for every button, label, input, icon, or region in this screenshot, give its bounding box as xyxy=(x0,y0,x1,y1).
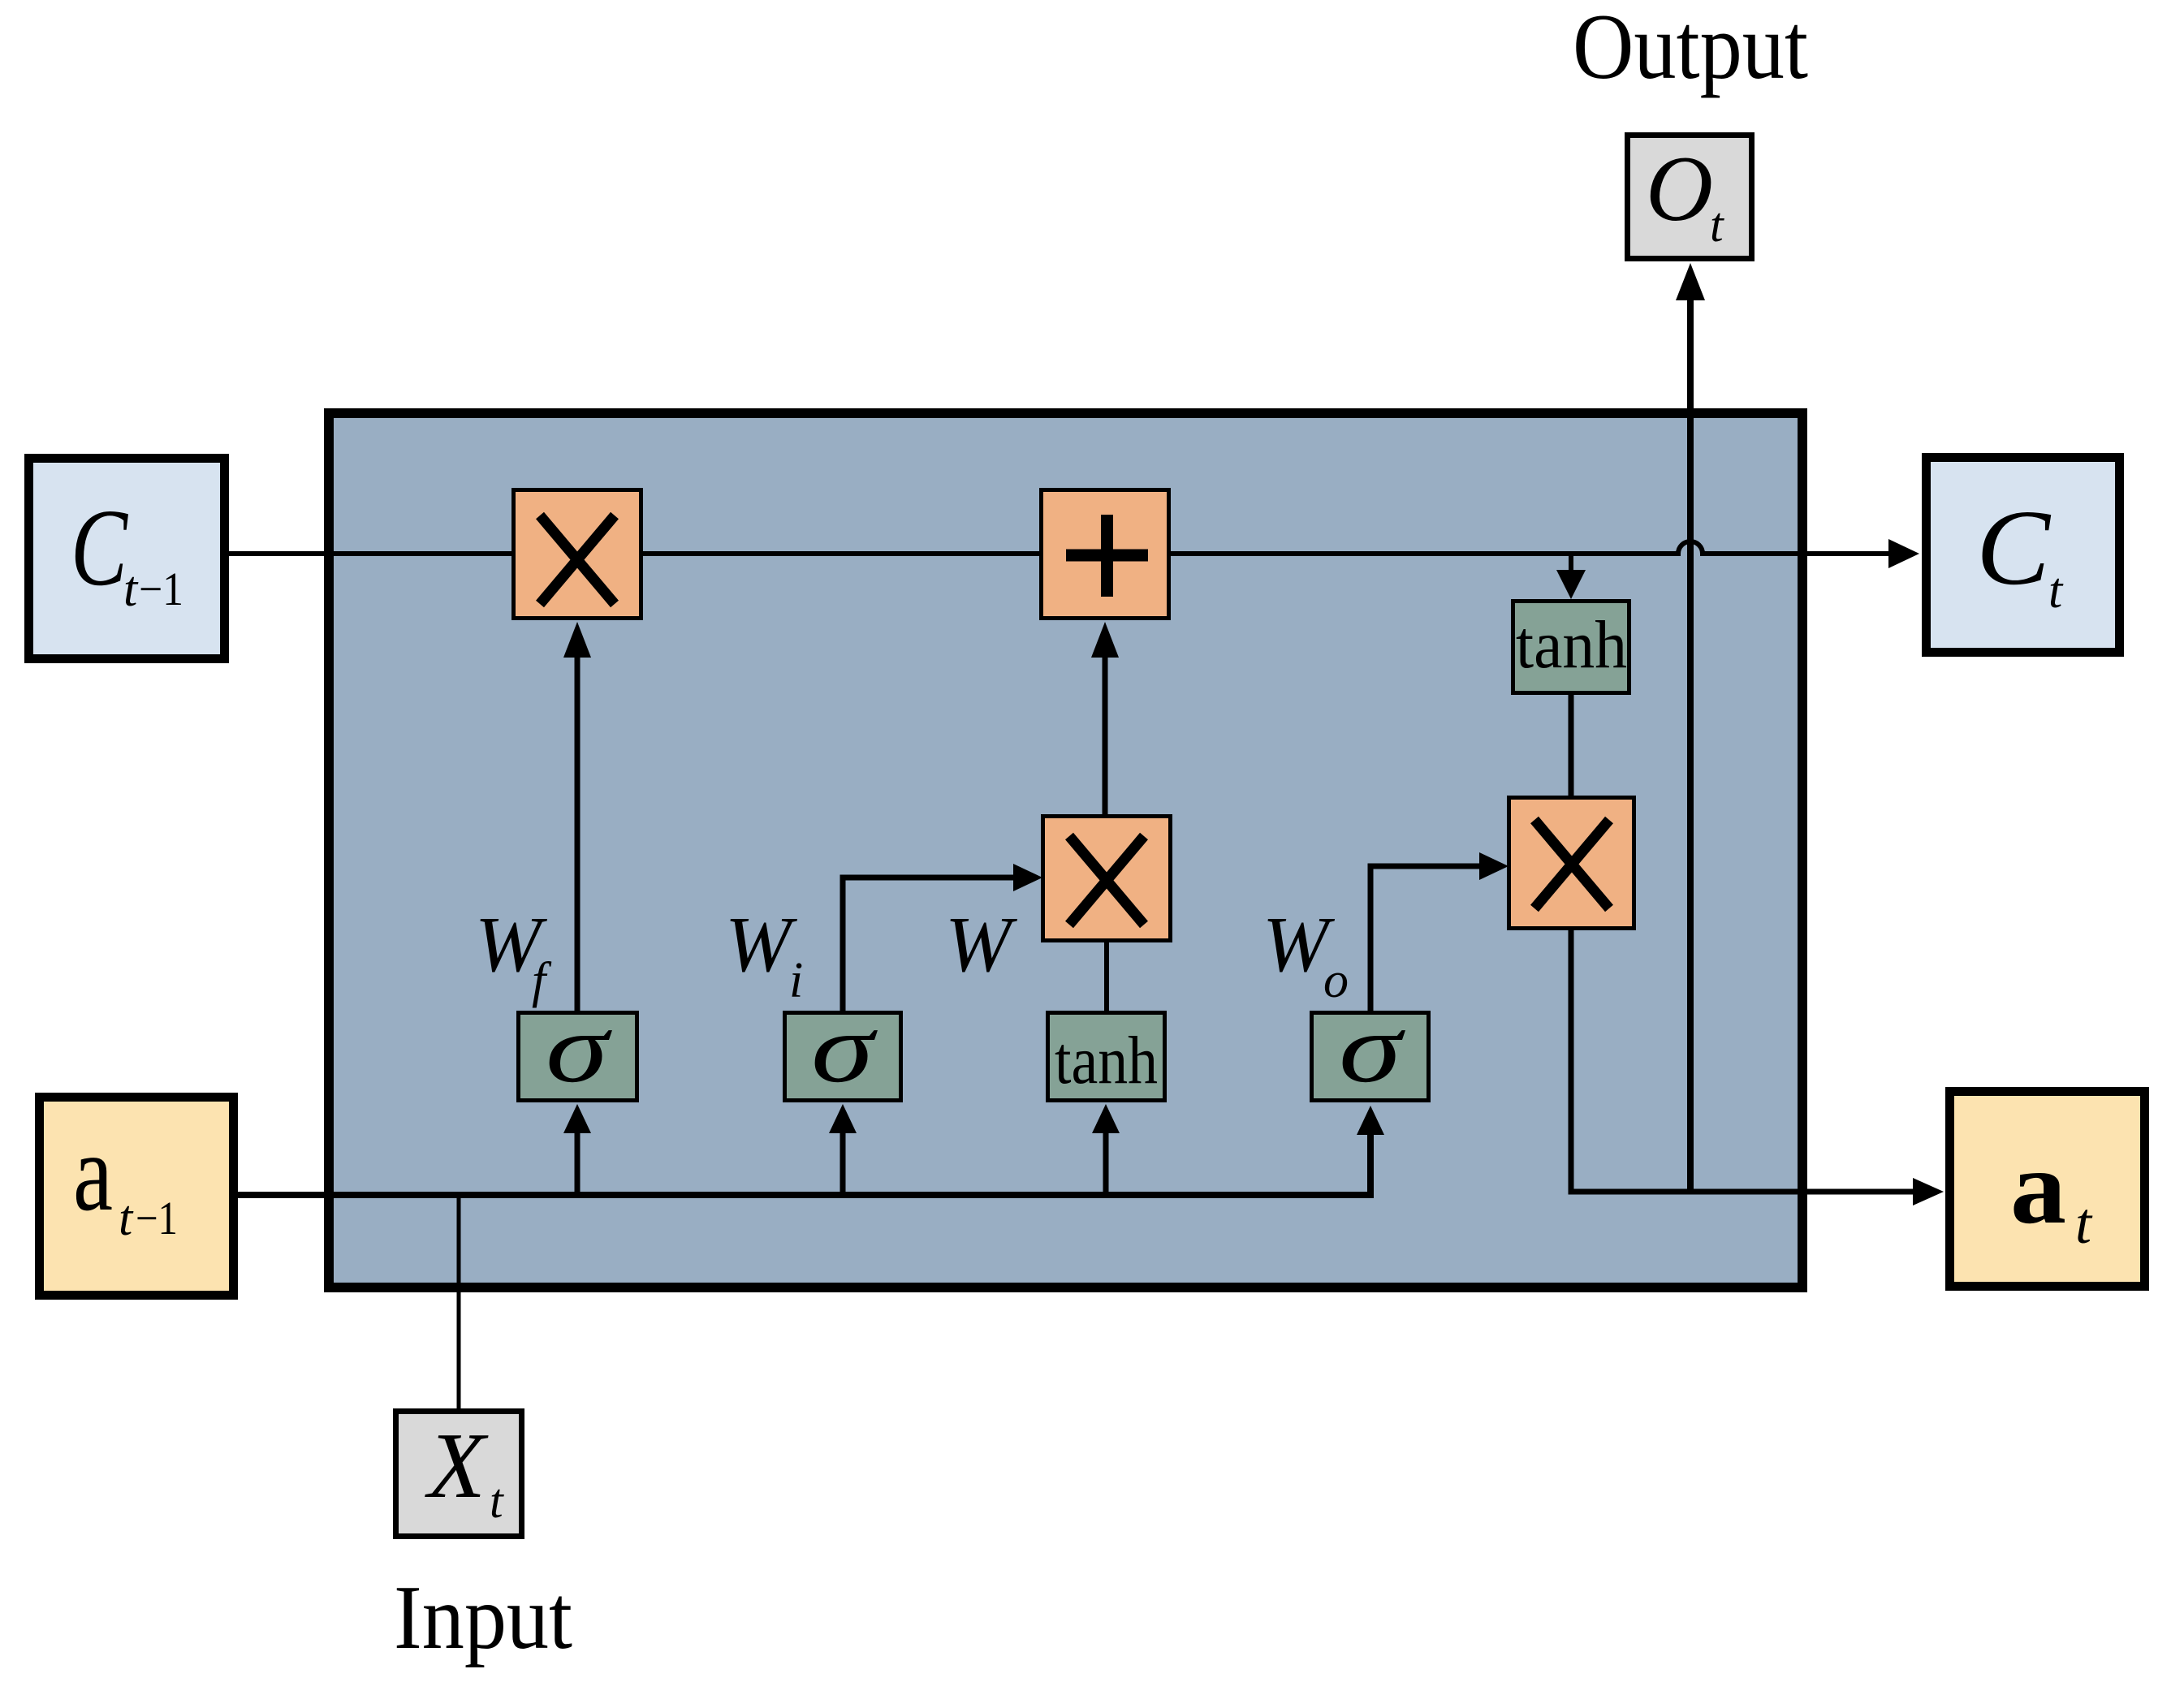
label W_i xyxy=(725,901,803,1008)
gate tanh2 (candidate) xyxy=(1048,1013,1165,1101)
svg-text:σ: σ xyxy=(1339,994,1406,1103)
box a_{t-1} xyxy=(40,1098,234,1296)
gate tanh (right, cell output) xyxy=(1513,602,1629,693)
svg-text:t: t xyxy=(1710,198,1724,252)
svg-text:X: X xyxy=(425,1414,489,1518)
gate sigma2 (input) xyxy=(785,994,901,1103)
svg-text:σ: σ xyxy=(546,994,613,1103)
svg-text:o: o xyxy=(1323,953,1349,1008)
svg-text:O: O xyxy=(1646,137,1713,240)
gate add plus xyxy=(1042,490,1169,619)
svg-text:W: W xyxy=(945,901,1018,989)
label W_o xyxy=(1262,901,1349,1008)
LSTM cell body xyxy=(329,413,1802,1287)
wire C-line from C_{t-1} through x1 and + with hop at output branch, arrow into C_t xyxy=(229,539,1919,568)
box O_t (output) xyxy=(1628,136,1752,259)
svg-text:t: t xyxy=(119,1191,134,1246)
svg-text:W: W xyxy=(725,901,798,989)
wire a-line up-arrow into sigma2 xyxy=(829,1104,857,1195)
wire sigma1 up-arrow into x1 xyxy=(563,622,591,1011)
wire X_t branch down from a-line xyxy=(457,1195,461,1410)
wire output branch vertical to O_t with arrow xyxy=(1676,263,1705,1192)
box C_t xyxy=(1927,458,2120,653)
box a_t xyxy=(1950,1092,2145,1287)
svg-text:tanh: tanh xyxy=(1055,1023,1158,1098)
svg-text:a: a xyxy=(2010,1129,2066,1246)
svg-text:Output: Output xyxy=(1573,0,1808,98)
svg-text:σ: σ xyxy=(811,994,878,1103)
svg-text:tanh: tanh xyxy=(1516,607,1627,683)
wire x(mid) down to tanh2 xyxy=(1104,942,1109,1012)
gate multiply x1 (forget) xyxy=(514,490,641,619)
gate sigma1 (forget) xyxy=(519,994,637,1103)
wire tanh(right) to x(right) xyxy=(1569,695,1574,797)
wire a-line from a_{t-1} across cell, corner up to sigma3 with arrow xyxy=(238,1106,1384,1195)
label W xyxy=(945,901,1018,989)
gate multiply x(mid) xyxy=(1043,817,1171,941)
svg-text:C: C xyxy=(1976,487,2051,607)
label W_f xyxy=(475,901,552,1008)
label Output xyxy=(1573,0,1808,98)
wire a-line up-arrow into tanh2 xyxy=(1092,1104,1120,1195)
wire arrow down into tanh (right) from C-line xyxy=(1556,556,1586,599)
svg-text:t: t xyxy=(2048,563,2064,619)
svg-text:a: a xyxy=(73,1112,113,1234)
wire x(right) down and right to a_t with arrow xyxy=(1571,930,1944,1205)
svg-text:C: C xyxy=(71,487,128,609)
svg-text:−1: −1 xyxy=(139,563,183,615)
box C_{t-1} xyxy=(29,459,225,659)
svg-text:t: t xyxy=(2075,1191,2093,1256)
svg-text:t: t xyxy=(490,1474,504,1528)
wire sigma2 right-arrow into x(mid) xyxy=(843,864,1042,1011)
wire a-line up-arrow into sigma1 xyxy=(563,1104,591,1195)
svg-text:t: t xyxy=(123,562,139,617)
svg-text:i: i xyxy=(789,953,803,1008)
gate sigma3 (output) xyxy=(1312,994,1429,1103)
svg-text:Input: Input xyxy=(394,1568,572,1668)
svg-text:−1: −1 xyxy=(136,1192,178,1244)
gate multiply x(right) xyxy=(1509,798,1634,929)
wire x(mid) up-arrow into plus xyxy=(1091,622,1119,814)
wire sigma3 right-arrow into x(right) xyxy=(1370,852,1509,1011)
box X_t (input) xyxy=(396,1412,522,1537)
label Input xyxy=(394,1568,572,1668)
